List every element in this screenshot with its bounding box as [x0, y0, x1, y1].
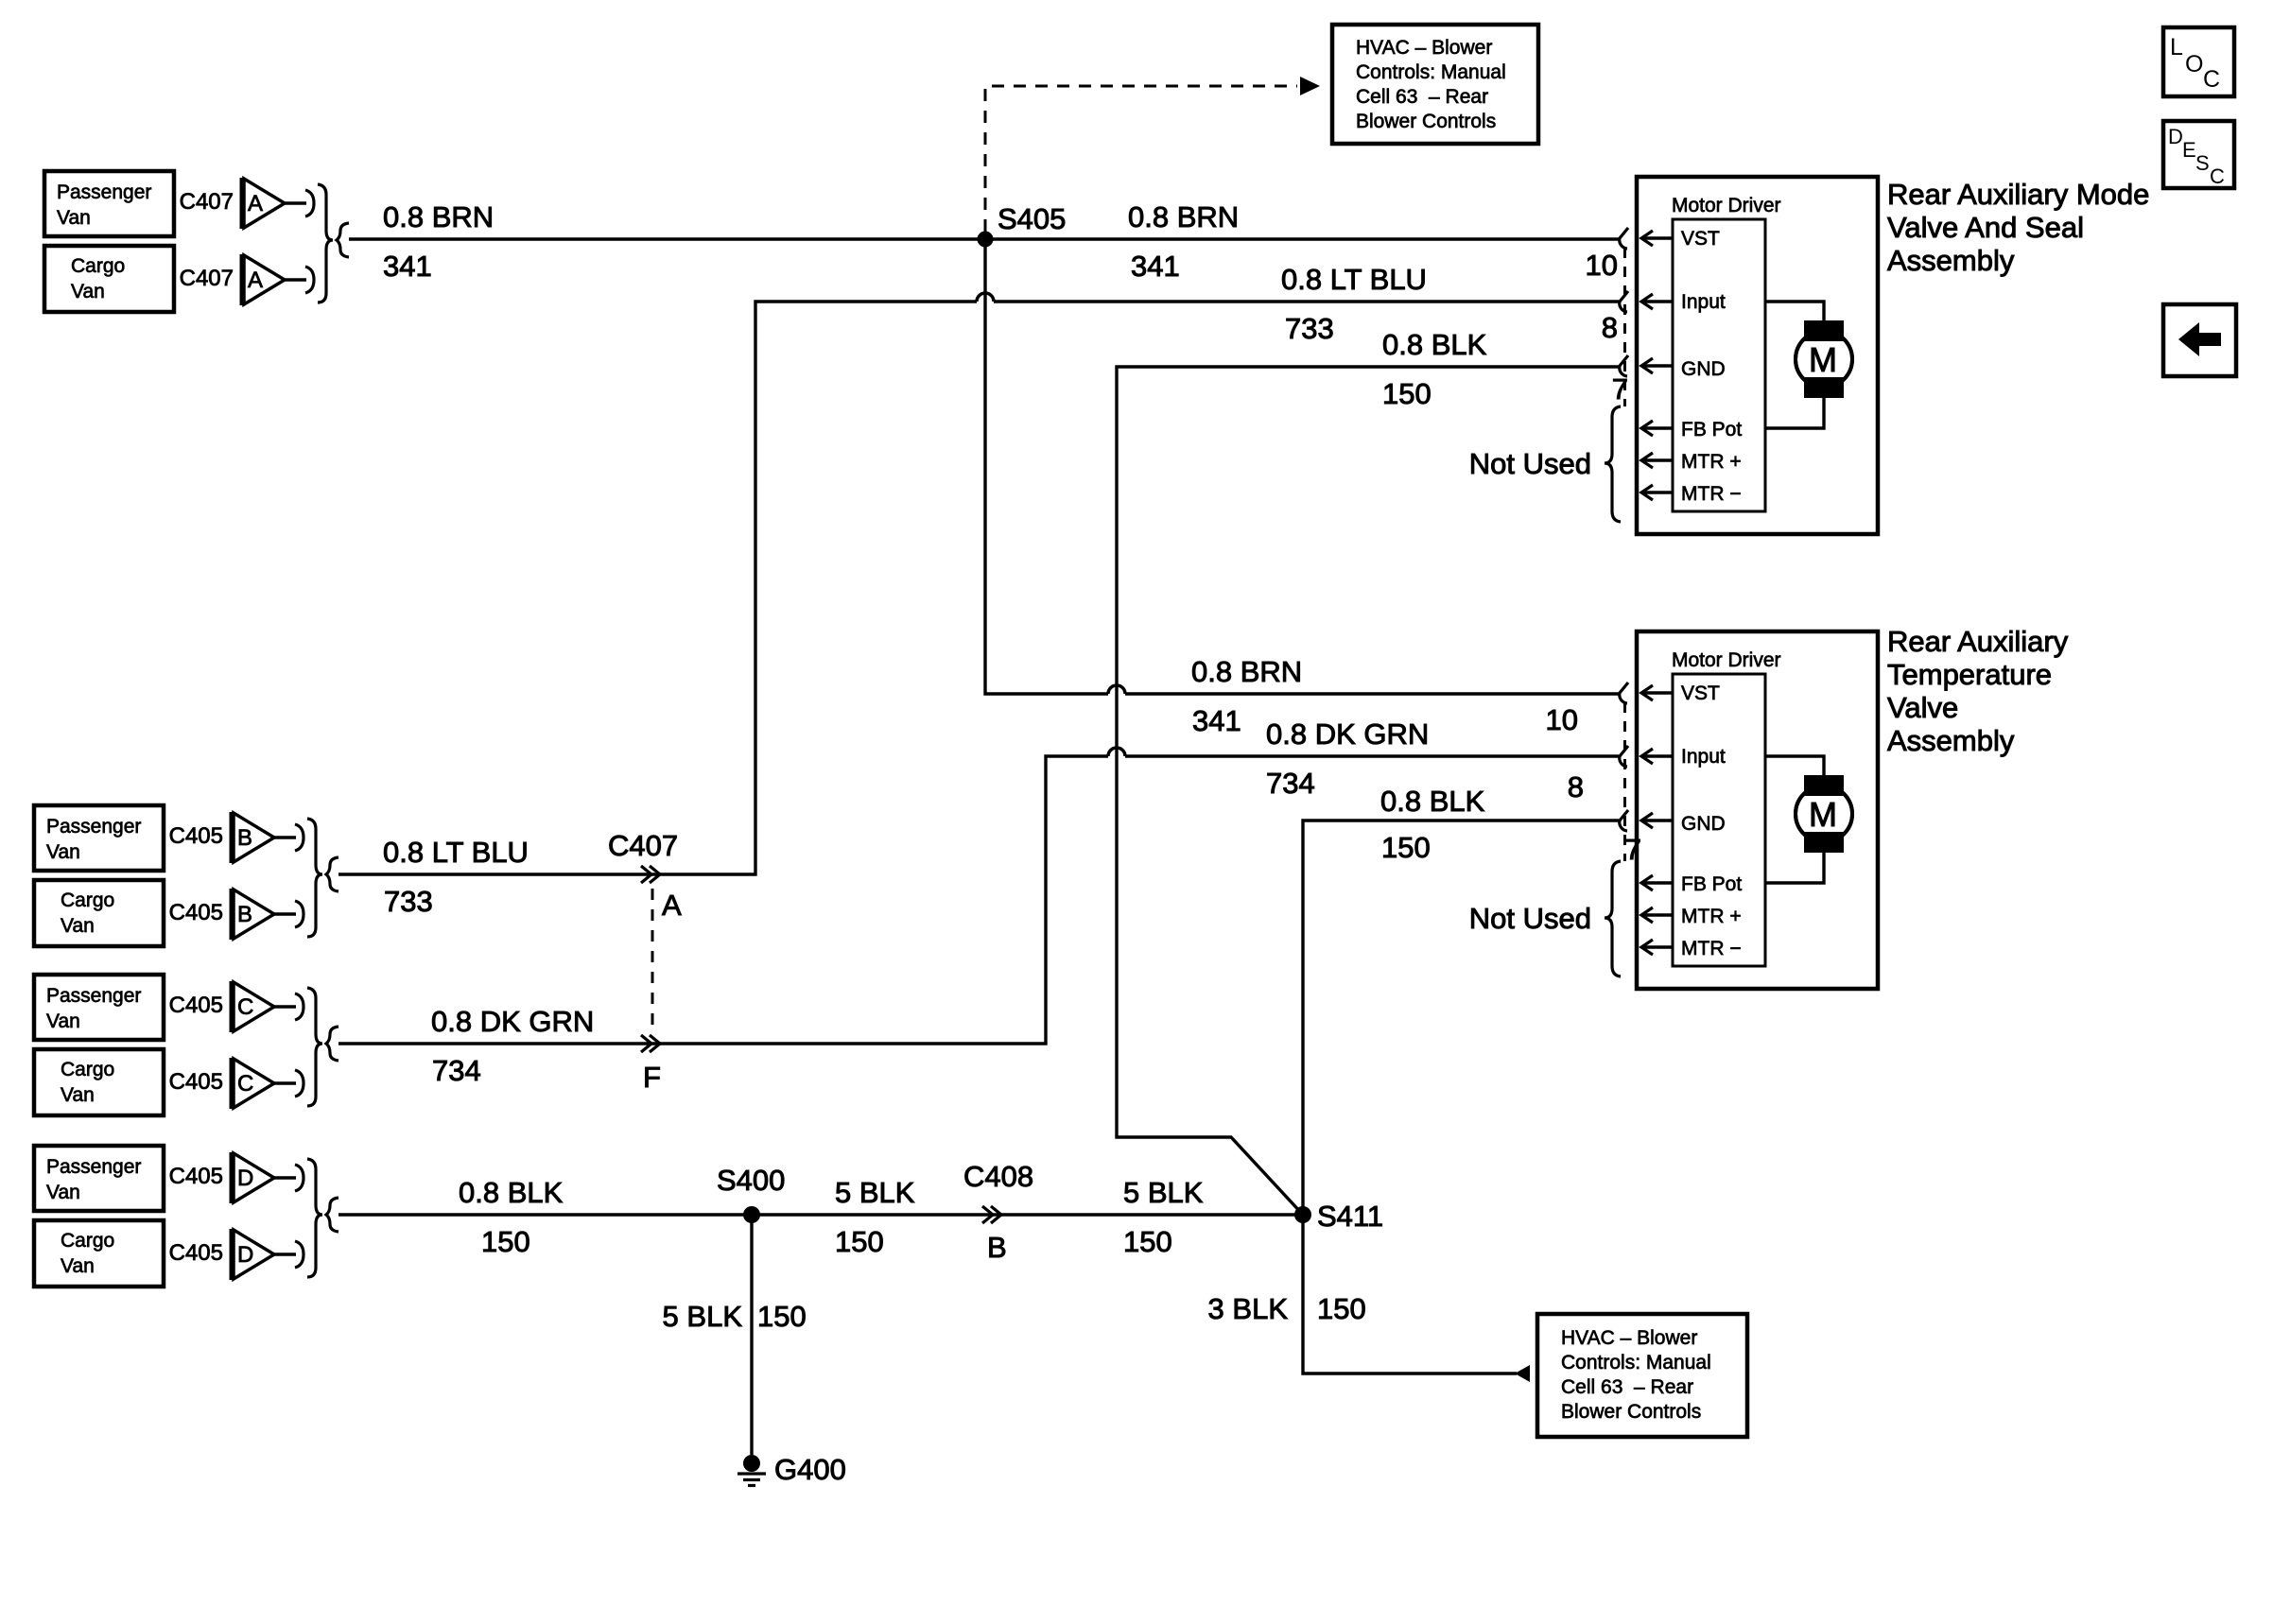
- svg-text:0.8 LT BLU: 0.8 LT BLU: [1281, 263, 1427, 296]
- svg-text:7: 7: [1625, 833, 1641, 866]
- svg-text:C407: C407: [608, 829, 678, 862]
- svg-text:341: 341: [1192, 704, 1241, 737]
- svg-text:C405: C405: [169, 1069, 223, 1095]
- svg-text:D: D: [237, 1242, 253, 1268]
- svg-text:0.8 BLK: 0.8 BLK: [459, 1176, 564, 1209]
- svg-text:Cell 63 – Rear: Cell 63 – Rear: [1356, 86, 1488, 108]
- group C405-D vans: [34, 1146, 338, 1287]
- wire (continues to Input pin): [994, 300, 1619, 302]
- svg-text:Assembly: Assembly: [1887, 244, 2015, 277]
- svg-text:5 BLK: 5 BLK: [835, 1176, 915, 1209]
- svg-text:0.8 BRN: 0.8 BRN: [1191, 655, 1302, 688]
- svg-text:5 BLK: 5 BLK: [663, 1300, 743, 1333]
- svg-text:Blower Controls: Blower Controls: [1356, 111, 1496, 132]
- svg-text:150: 150: [1317, 1292, 1366, 1325]
- svg-text:7: 7: [1612, 372, 1628, 406]
- svg-text:B: B: [237, 902, 252, 927]
- svg-text:G400: G400: [774, 1453, 846, 1486]
- svg-text:0.8 LT BLU: 0.8 LT BLU: [383, 836, 529, 869]
- svg-text:HVAC – Blower: HVAC – Blower: [1561, 1327, 1697, 1349]
- svg-text:Assembly: Assembly: [1887, 724, 2015, 757]
- svg-text:C405: C405: [169, 993, 223, 1018]
- wire 0.8 BLK 150 (Temp valve GND to S411 to HVAC ref): [1303, 821, 1619, 1373]
- svg-text:733: 733: [384, 885, 433, 918]
- svg-text:734: 734: [432, 1054, 481, 1087]
- svg-text:341: 341: [1131, 250, 1180, 283]
- svg-text:C405: C405: [169, 1240, 223, 1266]
- svg-text:A: A: [662, 889, 682, 922]
- svg-text:S: S: [2195, 151, 2210, 175]
- svg-text:L: L: [2170, 34, 2183, 60]
- wire 0.8 BRN 341 (S405 to Temp valve VST): [985, 239, 1108, 694]
- motor driver U2 (Rear Auxiliary Temperature Valve Assembly): [1469, 631, 1878, 989]
- inline connector C407-A chevrons: [641, 866, 651, 883]
- svg-text:Rear Auxiliary Mode: Rear Auxiliary Mode: [1887, 178, 2149, 211]
- wire 0.8 BRN 341 circuit (S405 to Mode valve VST): [349, 237, 1619, 240]
- svg-text:A: A: [248, 268, 263, 293]
- svg-text:S411: S411: [1317, 1200, 1383, 1233]
- inline connector C408-B chevrons: [982, 1206, 993, 1223]
- svg-text:C: C: [237, 994, 253, 1020]
- svg-text:0.8 BRN: 0.8 BRN: [383, 200, 494, 233]
- reference box HVAC Blower Controls (top): [1332, 25, 1538, 144]
- reference arrowhead (to bottom HVAC box): [1515, 1365, 1530, 1382]
- svg-text:341: 341: [383, 250, 432, 283]
- wire hop over BLK drop: [1108, 685, 1125, 694]
- svg-text:733: 733: [1285, 312, 1334, 345]
- svg-text:C408: C408: [963, 1160, 1033, 1193]
- svg-text:S400: S400: [717, 1164, 785, 1197]
- svg-text:Controls: Manual: Controls: Manual: [1561, 1352, 1711, 1373]
- svg-text:C407: C407: [180, 189, 234, 215]
- splice S400: [743, 1206, 760, 1223]
- svg-text:HVAC – Blower: HVAC – Blower: [1356, 37, 1492, 59]
- svg-text:Valve And Seal: Valve And Seal: [1887, 211, 2084, 244]
- group C407-A vans (Passenger/Cargo): [44, 171, 349, 312]
- svg-text:D: D: [2168, 125, 2183, 148]
- svg-text:0.8 BRN: 0.8 BRN: [1128, 200, 1239, 233]
- svg-text:B: B: [987, 1231, 1007, 1264]
- svg-text:B: B: [237, 825, 252, 851]
- svg-text:10: 10: [1586, 249, 1618, 282]
- legend box LOC: [2163, 27, 2234, 96]
- svg-text:Valve: Valve: [1887, 691, 1958, 724]
- legend box back arrow: [2163, 304, 2236, 376]
- svg-text:C: C: [2210, 164, 2225, 188]
- svg-text:D: D: [237, 1166, 253, 1191]
- svg-text:150: 150: [481, 1225, 530, 1258]
- svg-text:150: 150: [835, 1225, 884, 1258]
- svg-text:C405: C405: [169, 823, 223, 849]
- svg-text:150: 150: [757, 1300, 807, 1333]
- wire 0.8 DK GRN 734 circuit (C405-C to Temp valve Input): [338, 756, 1108, 1044]
- svg-text:E: E: [2182, 138, 2196, 162]
- svg-text:150: 150: [1123, 1225, 1172, 1258]
- svg-text:734: 734: [1266, 767, 1315, 800]
- svg-text:150: 150: [1382, 377, 1431, 410]
- inline connector C407-F chevrons: [641, 1035, 651, 1052]
- svg-text:C: C: [2203, 66, 2220, 93]
- svg-text:5 BLK: 5 BLK: [1123, 1176, 1204, 1209]
- splice S405: [978, 232, 994, 248]
- svg-text:Cell 63 – Rear: Cell 63 – Rear: [1561, 1376, 1693, 1398]
- svg-text:C405: C405: [169, 900, 223, 925]
- dashed reference arrowhead: [1300, 77, 1320, 95]
- svg-text:150: 150: [1381, 831, 1431, 864]
- svg-text:Blower Controls: Blower Controls: [1561, 1401, 1701, 1423]
- motor driver U1 (Rear Auxiliary Mode Valve And Seal Assembly): [1469, 177, 1878, 534]
- legend box DESC: [2163, 121, 2234, 188]
- svg-text:3 BLK: 3 BLK: [1208, 1292, 1289, 1325]
- svg-text:C: C: [237, 1071, 253, 1097]
- reference box HVAC Blower Controls (bottom): [1537, 1314, 1747, 1437]
- svg-text:0.8 DK GRN: 0.8 DK GRN: [431, 1005, 594, 1038]
- wire 0.8 BLK / 5 BLK 150 ground circuit (C405-D to S400 to S411): [338, 1213, 1303, 1216]
- wire hop over S405 drop: [977, 293, 994, 302]
- svg-text:O: O: [2185, 51, 2203, 78]
- svg-text:S405: S405: [998, 202, 1066, 235]
- wire 0.8 BLK 150 (Mode valve GND to S411): [1117, 367, 1619, 1215]
- svg-text:A: A: [248, 191, 263, 216]
- svg-text:F: F: [643, 1061, 661, 1094]
- svg-text:Rear Auxiliary: Rear Auxiliary: [1887, 625, 2069, 658]
- svg-text:Temperature: Temperature: [1887, 658, 2052, 691]
- svg-text:C405: C405: [169, 1164, 223, 1189]
- wire hop over BLK drop: [1108, 748, 1125, 756]
- splice S411: [1294, 1206, 1311, 1223]
- svg-text:10: 10: [1546, 703, 1578, 736]
- dashed reference line S405 to HVAC cell 63: [985, 86, 1297, 232]
- group C405-C vans: [34, 975, 338, 1115]
- group C405-B vans: [34, 805, 338, 946]
- svg-text:0.8 BLK: 0.8 BLK: [1380, 785, 1485, 818]
- svg-text:C407: C407: [180, 266, 234, 291]
- wire 0.8 LT BLU 733 circuit (C405-B to Mode valve Input): [338, 302, 977, 874]
- wire 5 BLK 150 (S400 to G400): [750, 1215, 753, 1455]
- svg-text:0.8 BLK: 0.8 BLK: [1382, 328, 1487, 361]
- ground G400: [743, 1455, 760, 1472]
- svg-text:8: 8: [1568, 770, 1584, 803]
- svg-text:8: 8: [1602, 311, 1618, 344]
- dashed connector link C407 A-F: [651, 889, 654, 1030]
- svg-text:Controls: Manual: Controls: Manual: [1356, 61, 1506, 83]
- svg-text:0.8 DK GRN: 0.8 DK GRN: [1266, 717, 1429, 751]
